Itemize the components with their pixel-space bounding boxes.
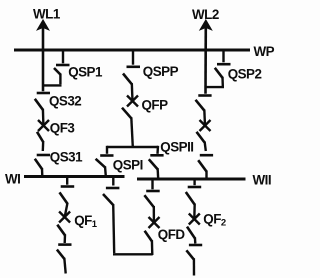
wire WL1 vertical	[42, 26, 45, 91]
svg-text:WP: WP	[254, 44, 275, 59]
disconnector WL2-bottom	[198, 155, 213, 179]
svg-text:QSPI: QSPI	[113, 158, 143, 173]
disconnector QSP1	[42, 50, 70, 85]
svg-text:QF3: QF3	[50, 121, 75, 136]
breaker QF3	[37, 120, 49, 151]
bus WI	[24, 175, 125, 178]
svg-text:QS31: QS31	[50, 150, 83, 165]
feeder QF2: bottom disconnector	[186, 245, 202, 276]
svg-text:QSP2: QSP2	[228, 67, 262, 82]
wire WL2 vertical	[204, 26, 207, 94]
svg-text:WL1: WL1	[33, 6, 61, 21]
svg-text:WII: WII	[253, 172, 272, 187]
line WL1 arrow	[38, 21, 48, 30]
breaker QF2	[187, 214, 200, 244]
bus WP	[14, 49, 250, 52]
svg-text:QS32: QS32	[49, 93, 81, 108]
svg-text:QFD: QFD	[158, 227, 186, 242]
svg-text:QFP: QFP	[142, 98, 169, 113]
tie QFD: left disconnector	[103, 178, 119, 205]
disconnector WL2-top	[196, 96, 212, 126]
disconnector QSP2	[205, 50, 231, 87]
wire U-top junction	[107, 146, 158, 148]
disconnector QSPII	[149, 146, 164, 179]
svg-text:WI: WI	[5, 171, 20, 186]
breaker QFD	[145, 206, 160, 241]
feeder QF1: bottom disconnector	[57, 245, 72, 274]
breaker QF1	[57, 212, 70, 244]
disconnector QSPI	[96, 146, 114, 176]
svg-text:QSPII: QSPII	[160, 140, 193, 155]
disconnector QS31	[35, 155, 50, 177]
disconnector QS32	[35, 93, 50, 126]
line WL2 arrow	[201, 21, 211, 30]
breaker WL2-mid	[197, 120, 211, 151]
bus WII	[137, 178, 246, 181]
feeder QF1: top disconnector	[60, 178, 75, 217]
svg-text:QSPP: QSPP	[143, 64, 179, 79]
svg-text:QSP1: QSP1	[68, 65, 103, 80]
disconnector QSPP	[123, 50, 140, 101]
breaker QFP	[122, 96, 138, 148]
tie QFD: right disconnector	[144, 180, 159, 208]
svg-text:WL2: WL2	[192, 7, 219, 22]
wire tie U	[113, 204, 153, 255]
feeder QF2: top disconnector	[186, 181, 201, 220]
